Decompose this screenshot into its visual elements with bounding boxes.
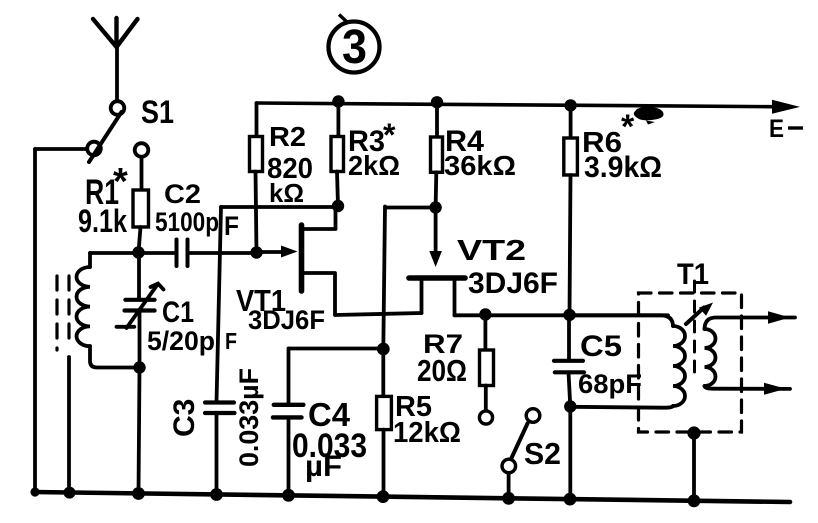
svg-text:S1: S1 — [141, 94, 174, 130]
svg-text:VT2: VT2 — [457, 235, 526, 267]
svg-text:*: * — [383, 117, 396, 153]
svg-text:5100p: 5100p — [155, 207, 219, 237]
svg-text:0.033µF: 0.033µF — [234, 368, 264, 467]
svg-text:S2: S2 — [524, 436, 561, 471]
svg-text:E: E — [769, 115, 784, 143]
svg-text:3DJ6F: 3DJ6F — [468, 267, 558, 300]
svg-text:36kΩ: 36kΩ — [444, 150, 516, 181]
svg-text:C1: C1 — [162, 296, 194, 329]
svg-text:*: * — [621, 108, 635, 146]
svg-text:68pF: 68pF — [578, 369, 642, 399]
svg-text:T1: T1 — [677, 258, 709, 291]
svg-text:3.9kΩ: 3.9kΩ — [584, 151, 662, 184]
svg-text:kΩ: kΩ — [269, 178, 304, 208]
svg-text:9.1k: 9.1k — [78, 203, 127, 239]
svg-text:12kΩ: 12kΩ — [393, 417, 461, 449]
svg-text:C2: C2 — [164, 179, 201, 209]
svg-text:3DJ6F: 3DJ6F — [248, 305, 325, 335]
svg-text:F: F — [225, 328, 237, 354]
svg-text:2kΩ: 2kΩ — [348, 150, 400, 181]
svg-text:3: 3 — [342, 21, 367, 74]
svg-text:R2: R2 — [269, 121, 306, 152]
svg-text:5/20p: 5/20p — [147, 326, 215, 356]
svg-text:C5: C5 — [580, 330, 622, 363]
svg-text:F: F — [224, 211, 239, 241]
svg-text:*: * — [113, 161, 128, 203]
svg-text:µF: µF — [305, 450, 342, 483]
svg-text:C3: C3 — [168, 399, 201, 437]
svg-text:20Ω: 20Ω — [417, 353, 467, 388]
